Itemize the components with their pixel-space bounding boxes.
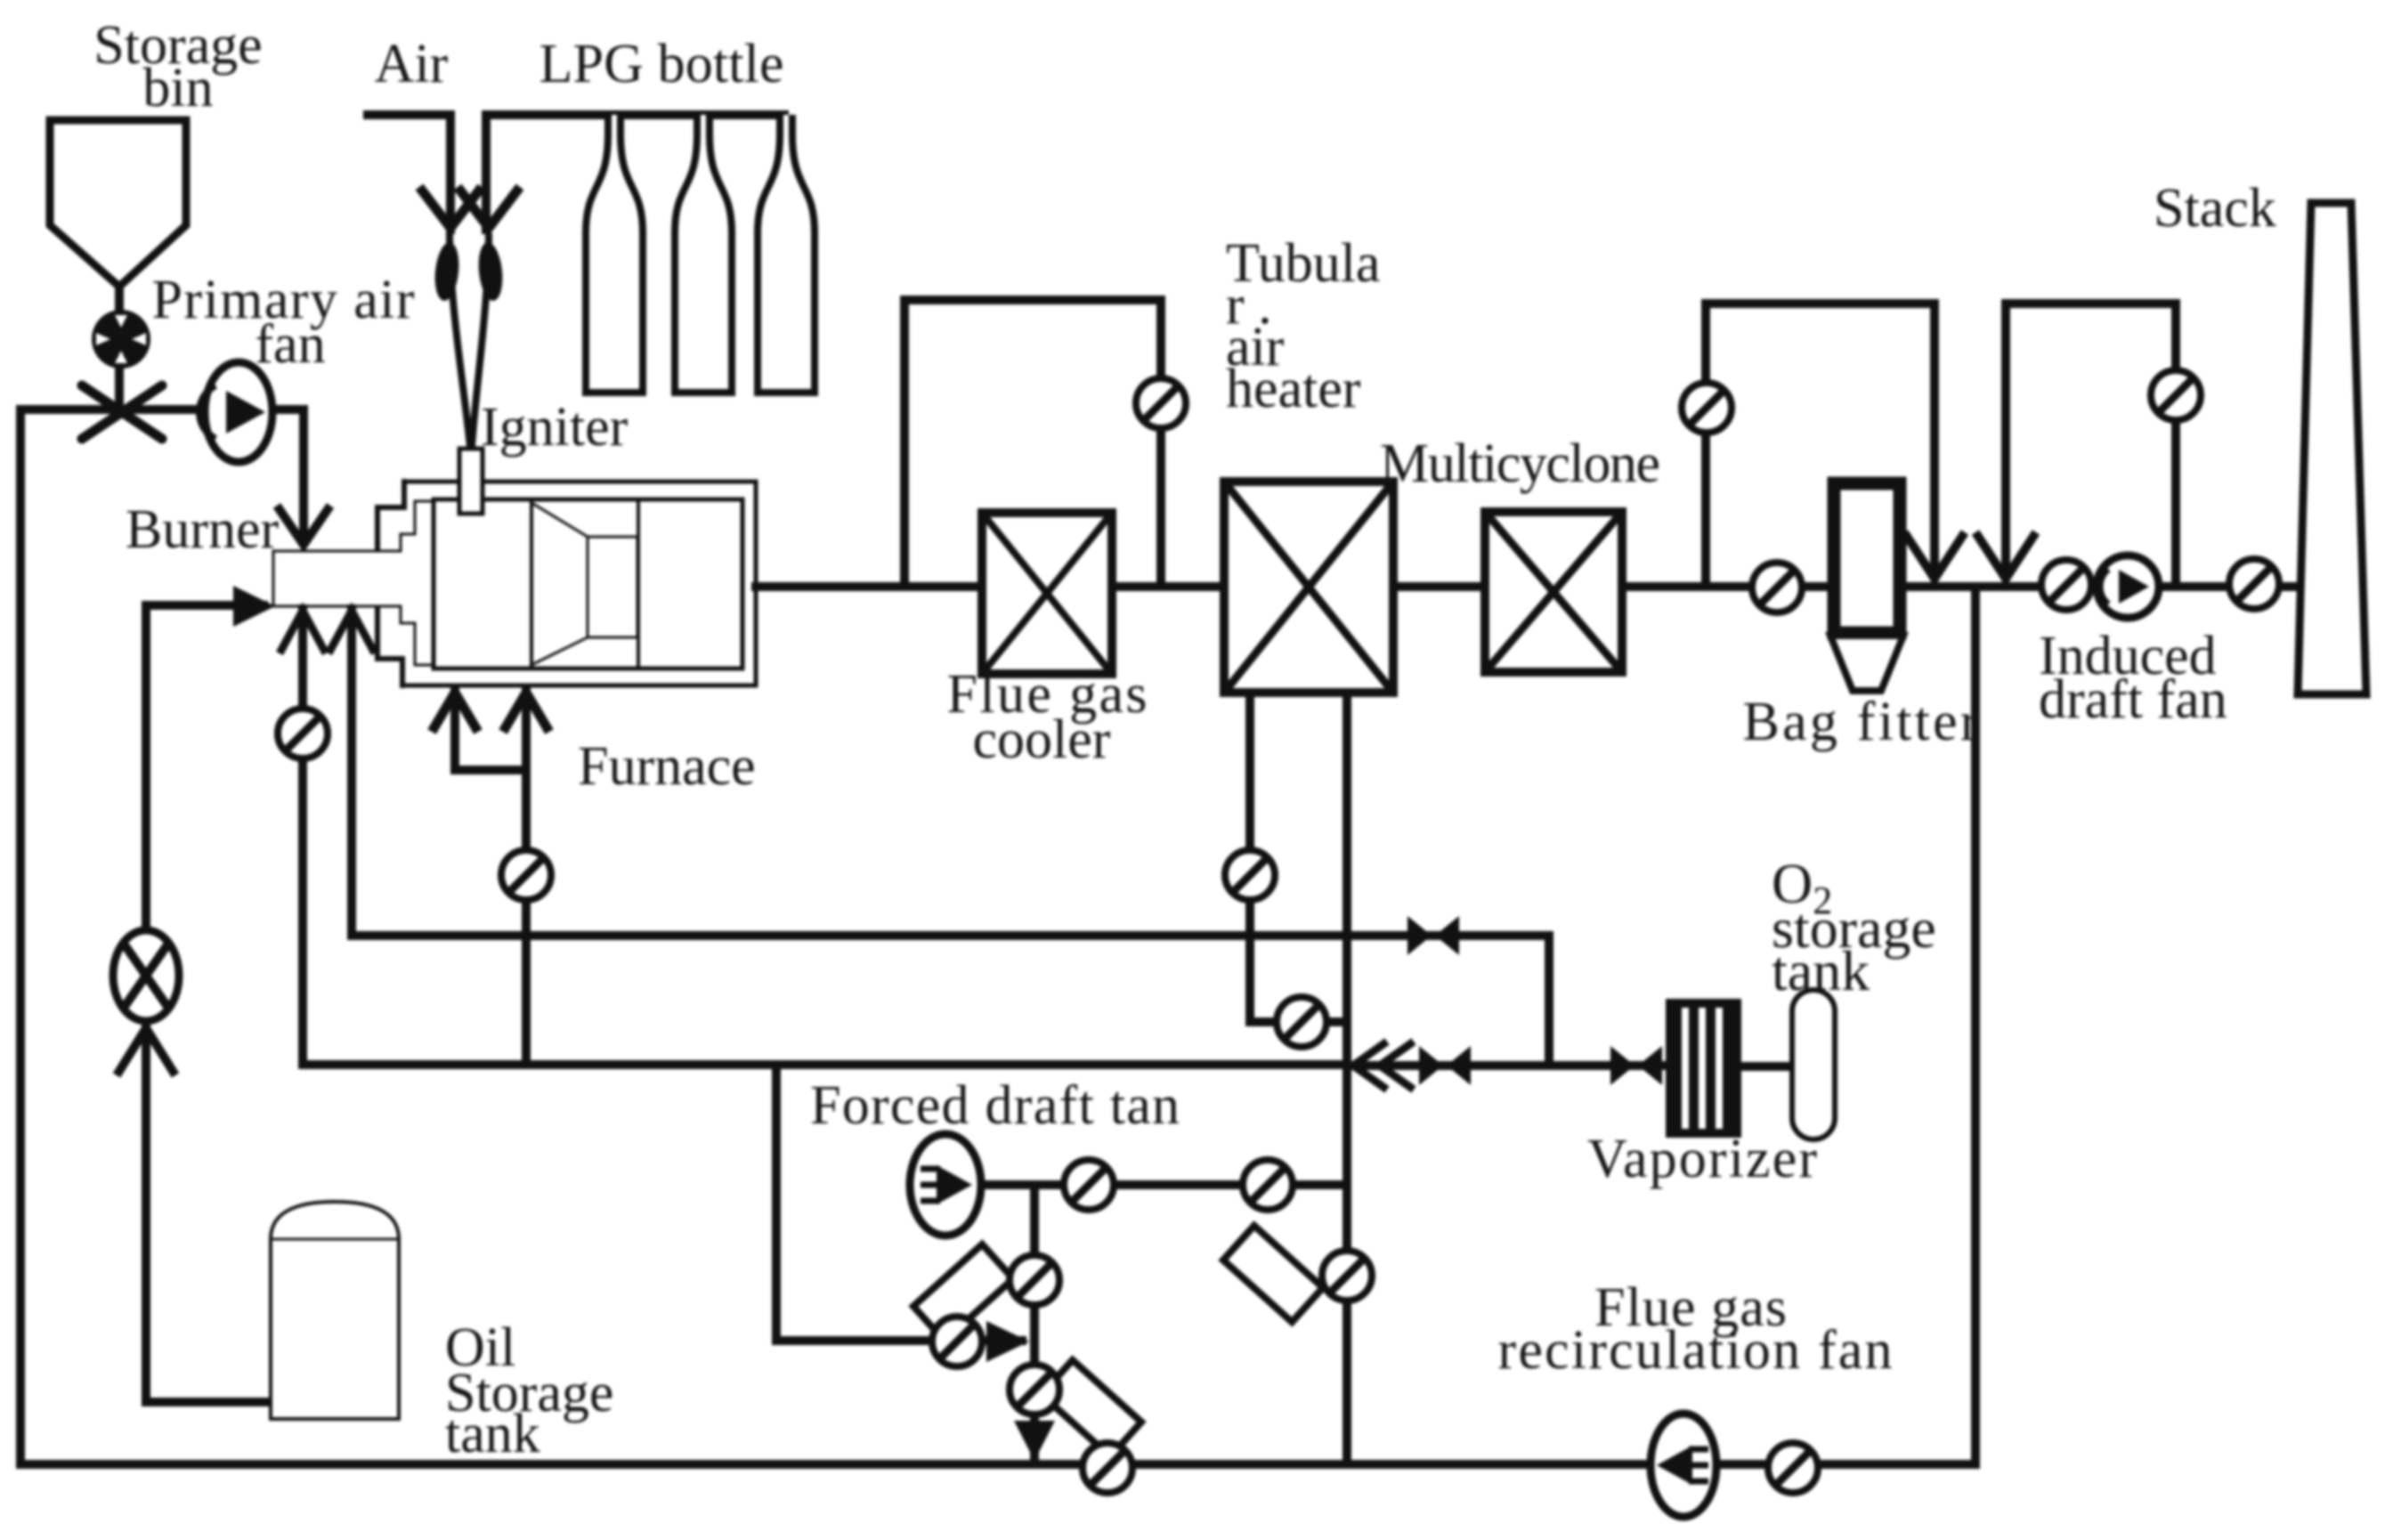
valve cooler bypass — [1136, 378, 1186, 428]
rotary valve under storage bin — [92, 310, 150, 369]
flue gas recirculation fan — [1651, 1414, 1716, 1517]
storage bin — [50, 120, 186, 287]
valve under furnace — [501, 850, 551, 900]
svg-text:Vaporizer: Vaporizer — [1587, 1129, 1817, 1189]
svg-text:Multicyclone: Multicyclone — [1380, 434, 1660, 494]
svg-text:bin: bin — [142, 58, 213, 118]
gate valve on O2 line — [1419, 1046, 1471, 1085]
svg-text:Forced draft tan: Forced draft tan — [810, 1075, 1180, 1136]
wire horizontal line Y1 — [352, 936, 1549, 1066]
wire flue gas cooler bypass loop — [904, 300, 1161, 587]
wire O2 feed line — [1353, 1061, 1666, 1070]
wire horizontal line Y2 — [303, 1060, 1347, 1069]
svg-text:heater: heater — [1226, 359, 1361, 419]
furnace outer shell — [402, 482, 756, 685]
svg-text:Bag fitter: Bag fitter — [1743, 692, 1979, 752]
wire bag filter bypass loop — [1706, 304, 1935, 587]
svg-text:LPG bottle: LPG bottle — [539, 34, 784, 94]
furnace inner wall left — [530, 501, 533, 667]
wire air heater drop stub — [1250, 1017, 1347, 1026]
gate valve at vaporizer inlet — [1610, 1046, 1662, 1085]
valve bag filter bypass — [1682, 383, 1732, 433]
svg-text:cooler: cooler — [973, 709, 1111, 770]
forced draft fan — [910, 1134, 981, 1236]
svg-text:Burner: Burner — [126, 499, 280, 560]
valve damper column lower — [1010, 1365, 1059, 1414]
oil pump suction arrowhead — [117, 1028, 175, 1075]
furnace inner wall right — [637, 501, 640, 667]
valve main line before bag filter — [1752, 563, 1802, 612]
multicyclone — [1485, 512, 1622, 672]
wire air supply horizontal+down — [368, 115, 450, 230]
wire flue gas recirculation downcomer — [1971, 587, 1980, 1464]
burner throat steps lower — [401, 606, 434, 665]
svg-text:Igniter: Igniter — [481, 397, 629, 458]
wire forced draft loop branch — [776, 1065, 1022, 1341]
valve bottom line right — [1768, 1443, 1818, 1493]
wire LPG manifold — [486, 115, 784, 230]
wire oil feed to burner — [146, 605, 264, 1402]
svg-text:Furnace: Furnace — [578, 736, 756, 797]
LPG bottle 2 — [675, 115, 732, 393]
burner gun converging lines — [450, 233, 470, 447]
arrow down to bottom line — [1014, 1421, 1055, 1461]
furnace inner shell — [434, 499, 742, 669]
primary air fan — [199, 362, 272, 462]
furnace outer step lower-left — [377, 609, 402, 685]
burner inlet arrow (oil) — [233, 586, 275, 627]
wire air heater left drop — [1245, 693, 1254, 1022]
O2 storage tank — [1792, 990, 1835, 1139]
flue gas cooler — [982, 513, 1112, 674]
svg-text:recirculation fan: recirculation fan — [1498, 1320, 1893, 1381]
wire oil tank suction — [146, 1398, 271, 1406]
valve FD line 1 — [1064, 1160, 1114, 1210]
furnace quarl diagonals — [533, 504, 588, 664]
arrow down onto main line (IDF bypass) — [1975, 532, 2036, 579]
wire burner secondary line x340 — [298, 609, 307, 1065]
wire forced draft fan discharge — [979, 1180, 1347, 1189]
manual cross valve on feeder line — [82, 385, 162, 439]
oil storage tank — [271, 1202, 399, 1419]
tubular air heater — [1224, 482, 1393, 693]
wire induced draft fan bypass loop — [2006, 304, 2176, 587]
arrow down into burner — [277, 506, 330, 545]
furnace outer step upper-left — [377, 482, 404, 547]
burner underfeed arrows (zigzag) — [280, 611, 326, 653]
furnace quarl box — [588, 537, 637, 637]
wire air heater right drop x1513 — [1343, 693, 1351, 1464]
burner body — [273, 551, 401, 606]
wire burner line x395 — [347, 609, 356, 936]
burner gun nozzle left — [433, 241, 462, 302]
oil pump — [113, 930, 179, 1021]
LPG line arrowhead — [458, 187, 520, 228]
valve main line after IDF — [2229, 559, 2279, 609]
svg-text:fan: fan — [255, 314, 325, 375]
svg-text:draft fan: draft fan — [2039, 669, 2227, 730]
arrow down onto main line (bag filter bypass) — [1904, 532, 1965, 579]
gate valve on Y1 — [1407, 916, 1459, 955]
burner gun nozzle right — [476, 241, 506, 302]
wire primary air fan line — [20, 405, 207, 414]
valve main line before IDF — [2041, 560, 2091, 610]
LPG bottle 3 — [758, 115, 815, 393]
valve on x340 — [278, 709, 328, 758]
svg-text:Air: Air — [375, 34, 449, 94]
burner throat steps upper — [401, 501, 434, 551]
wire furnace underfeed — [522, 691, 531, 1065]
valve IDF bypass — [2151, 370, 2201, 420]
wire furnace underfeed bracket — [455, 691, 526, 770]
bag filter cone — [1830, 636, 1903, 691]
vaporizer — [1666, 999, 1741, 1138]
damper D3 — [1223, 1226, 1323, 1322]
O2 line left arrowheads — [1353, 1042, 1387, 1090]
svg-text:tank: tank — [1772, 939, 1870, 1002]
wire primary air fan outlet to burner — [271, 409, 304, 541]
wire damper column x1162 — [1030, 1185, 1039, 1455]
valve FD line 2 — [1243, 1160, 1293, 1210]
svg-text:Stack: Stack — [2154, 178, 2276, 239]
svg-text:tank: tank — [445, 1404, 540, 1464]
wire storage bin drop — [115, 287, 124, 409]
valve on heater stub — [1277, 997, 1326, 1047]
damper D1 — [913, 1244, 1013, 1341]
stack — [2298, 203, 2366, 694]
valve on FD branch — [932, 1317, 982, 1366]
induced draft fan — [2097, 555, 2159, 618]
arrow right into damper column — [986, 1321, 1029, 1362]
wire vaporizer to O2 tank link — [1741, 1062, 1792, 1071]
igniter — [459, 449, 483, 514]
bag filter body — [1834, 483, 1900, 633]
oil tank shoulder line — [271, 1238, 399, 1241]
wire main flue gas line — [756, 582, 2300, 591]
valve damper column upper — [1010, 1255, 1059, 1305]
valve bottom line left — [1083, 1443, 1132, 1493]
LPG bottle 1 — [586, 115, 643, 393]
valve on x1513 — [1322, 1251, 1372, 1301]
valve air heater left drop — [1225, 850, 1275, 900]
furnace underfeed arrowheads — [432, 693, 478, 732]
wire bottom recirculation line — [20, 1460, 1975, 1469]
damper D2 — [1042, 1360, 1141, 1456]
wire left outer riser — [16, 409, 25, 1464]
air line arrowhead left — [419, 187, 482, 228]
